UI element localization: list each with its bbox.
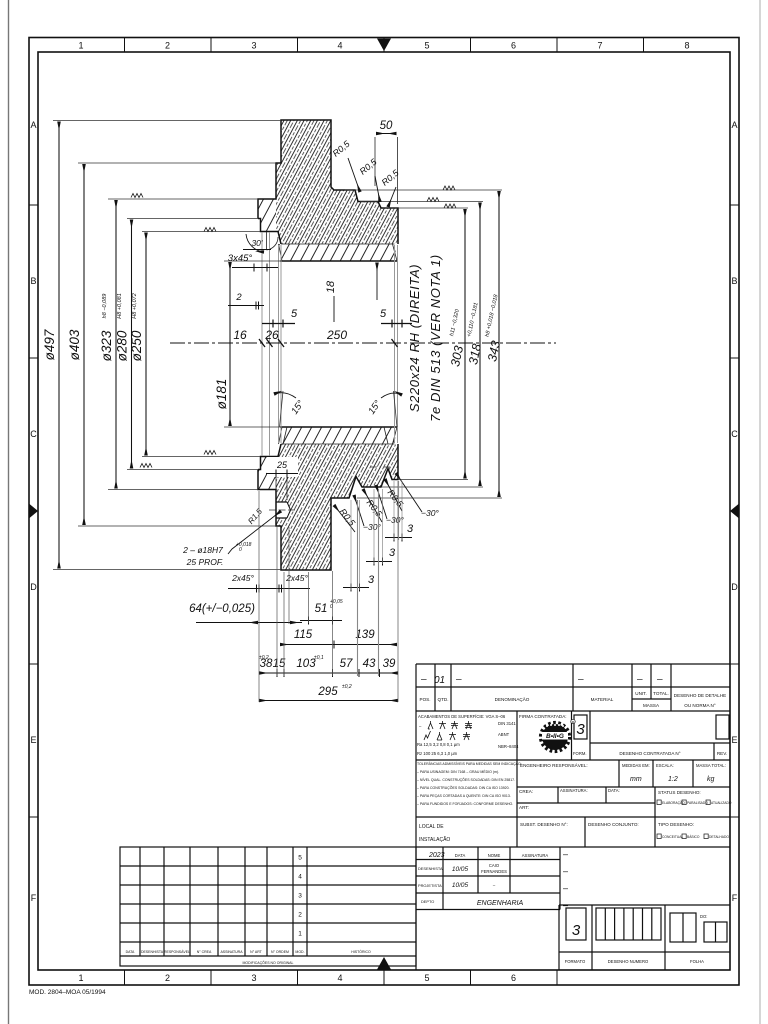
svg-text:ø497: ø497 [42, 329, 57, 360]
svg-text:CAIO: CAIO [489, 863, 500, 868]
svg-text:F: F [732, 893, 738, 903]
svg-text:MEDIDAS EM:: MEDIDAS EM: [622, 763, 650, 768]
svg-text:0: 0 [239, 547, 242, 553]
svg-text:NBR–8404: NBR–8404 [498, 744, 519, 749]
svg-text:N° ART: N° ART [250, 950, 263, 954]
svg-text:2x45°: 2x45° [231, 573, 254, 583]
svg-text:D: D [731, 582, 738, 592]
svg-text:E: E [30, 735, 36, 745]
svg-text:FORMATO: FORMATO [565, 959, 586, 964]
svg-text:– NÍVEL QUAL. CONSTRUÇÕES SOLD: – NÍVEL QUAL. CONSTRUÇÕES SOLDADAS: DIN … [417, 777, 515, 782]
svg-text:CONCEITUAL: CONCEITUAL [662, 835, 683, 839]
svg-text:– PARA PEÇAS CORTADAS A QUENTE: – PARA PEÇAS CORTADAS A QUENTE: DIN CA I… [417, 794, 511, 798]
svg-text:ATUALIZADO: ATUALIZADO [711, 801, 732, 805]
svg-text:7: 7 [597, 41, 602, 51]
svg-text:–: – [656, 674, 663, 685]
svg-text:TIPO DESENHO:: TIPO DESENHO: [658, 822, 694, 827]
svg-text:STATUS DESENHO:: STATUS DESENHO: [658, 790, 701, 795]
svg-text:DESENHO NUMERO: DESENHO NUMERO [608, 959, 649, 964]
svg-text:– PARA CONSTRUÇÕES SOLDADAS: D: – PARA CONSTRUÇÕES SOLDADAS: DIN CA ISO … [417, 785, 510, 790]
svg-text:ASSINATURA:: ASSINATURA: [560, 788, 588, 793]
svg-text:2x45°: 2x45° [285, 573, 308, 583]
svg-text:64(+/−0,025): 64(+/−0,025) [189, 603, 255, 615]
svg-text:51: 51 [315, 603, 328, 615]
svg-text:POS.: POS. [420, 697, 431, 702]
svg-text:S220x24 RH (DIREITA): S220x24 RH (DIREITA) [407, 264, 422, 412]
svg-text:–: – [493, 883, 496, 888]
svg-text:–: – [563, 900, 568, 910]
svg-text:10/05: 10/05 [452, 882, 469, 889]
svg-text:10/05: 10/05 [452, 866, 469, 873]
svg-text:25 PROF.: 25 PROF. [186, 557, 224, 567]
svg-text:115: 115 [294, 629, 313, 641]
svg-text:F: F [31, 893, 37, 903]
svg-text:ART:: ART: [519, 805, 529, 810]
svg-text:Rz 100 25 6,3: Rz 100 25 6,3 1,0 µm [417, 751, 458, 756]
svg-text:6: 6 [511, 41, 516, 51]
svg-text:INSTALAÇÃO: INSTALAÇÃO [419, 836, 450, 843]
svg-text:E: E [731, 735, 737, 745]
svg-text:ENGENHEIRO RESPONSÁVEL:: ENGENHEIRO RESPONSÁVEL: [520, 762, 588, 768]
svg-text:FIRMA CONTRATADA:: FIRMA CONTRATADA: [519, 714, 567, 719]
svg-text:DESENHISTA: DESENHISTA [141, 950, 164, 954]
svg-text:139: 139 [355, 629, 375, 641]
svg-text:–: – [419, 724, 422, 729]
svg-text:6: 6 [511, 973, 516, 983]
svg-text:D: D [30, 582, 37, 592]
svg-text:– PARA USINAGEM: DIN 7168 – GR: – PARA USINAGEM: DIN 7168 – GRAU MÉDIO (… [417, 769, 499, 774]
svg-text:295: 295 [317, 686, 338, 698]
svg-text:ø250: ø250 [129, 330, 144, 361]
svg-text:39: 39 [383, 658, 396, 670]
svg-text:H8 +0,072: H8 +0,072 [132, 293, 138, 319]
svg-text:−30°: −30° [421, 508, 439, 518]
svg-text:1: 1 [298, 931, 302, 938]
svg-text:2: 2 [165, 41, 170, 51]
svg-text:ø280: ø280 [115, 330, 130, 361]
svg-text:ø403: ø403 [67, 329, 82, 360]
svg-text:–: – [577, 674, 584, 685]
svg-text:ASSINATURA: ASSINATURA [522, 853, 549, 858]
svg-text:50: 50 [380, 120, 393, 132]
svg-text:15°: 15° [289, 398, 306, 416]
svg-text:MASSA: MASSA [643, 703, 660, 708]
svg-text:– PARA FUNDIDOS E FORJADOS: CO: – PARA FUNDIDOS E FORJADOS: CONFORME DES… [417, 802, 513, 806]
svg-text:–: – [455, 674, 462, 685]
svg-text:318: 318 [466, 342, 484, 365]
svg-text:4: 4 [337, 973, 342, 983]
svg-text:57: 57 [340, 658, 353, 670]
svg-text:R0,5: R0,5 [358, 156, 380, 177]
svg-text:CREA:: CREA: [519, 789, 533, 794]
svg-text:–: – [563, 866, 568, 876]
svg-text:B•II•G: B•II•G [546, 733, 564, 740]
svg-text:DESENHO CONTRATADA N°: DESENHO CONTRATADA N° [619, 751, 680, 756]
svg-text:NOME: NOME [488, 853, 501, 858]
svg-text:TOTAL.: TOTAL. [653, 691, 669, 696]
svg-text:ø323: ø323 [99, 330, 114, 361]
svg-text:N° CREA: N° CREA [197, 950, 212, 954]
svg-text:FERNANDES: FERNANDES [481, 869, 507, 874]
svg-text:250: 250 [326, 328, 347, 342]
svg-text:7e DIN 513 (VER NOTA 1): 7e DIN 513 (VER NOTA 1) [428, 254, 443, 422]
svg-text:R0,5: R0,5 [338, 507, 358, 529]
svg-text:ENGENHARIA: ENGENHARIA [477, 900, 524, 907]
svg-text:8: 8 [684, 41, 689, 51]
svg-text:LOCAL DE: LOCAL DE [419, 824, 444, 830]
svg-text:5: 5 [424, 41, 429, 51]
svg-text:DATA: DATA [126, 950, 135, 954]
svg-text:±0,2: ±0,2 [259, 655, 269, 661]
svg-text:QTD.: QTD. [438, 697, 449, 702]
svg-text:h8 −0,089: h8 −0,089 [102, 294, 108, 319]
svg-text:1: 1 [78, 973, 83, 983]
svg-text:DATA: DATA [455, 853, 466, 858]
svg-text:2023: 2023 [428, 852, 445, 859]
svg-text:DESENHO DE DETALHE: DESENHO DE DETALHE [674, 693, 727, 698]
svg-text:h11 −0,320: h11 −0,320 [449, 308, 461, 337]
svg-text:MATERIAL: MATERIAL [591, 697, 614, 702]
svg-text:R0,5: R0,5 [380, 167, 402, 188]
svg-text:ASSINATURA: ASSINATURA [220, 950, 243, 954]
svg-text:h8 +0,018 −0,018: h8 +0,018 −0,018 [485, 293, 500, 337]
svg-text:C: C [731, 429, 738, 439]
svg-text:3: 3 [368, 574, 375, 586]
svg-text:5: 5 [298, 855, 302, 862]
svg-text:343: 343 [485, 339, 503, 362]
svg-text:DESENHO CONJUNTO:: DESENHO CONJUNTO: [588, 822, 639, 827]
svg-text:16: 16 [233, 328, 247, 342]
svg-text:MODIFICAÇÕES NO ORIGINAL: MODIFICAÇÕES NO ORIGINAL [243, 960, 294, 965]
svg-text:R0,5: R0,5 [331, 138, 353, 159]
svg-text:303: 303 [448, 344, 466, 367]
svg-text:2 – ø18H7: 2 – ø18H7 [182, 545, 223, 555]
svg-text:B: B [731, 276, 737, 286]
svg-text:ACABAMENTOS DE SUPERFÍCIE:: ACABAMENTOS DE SUPERFÍCIE: VGA S–06 [418, 714, 506, 719]
svg-text:+0,110 −0,181: +0,110 −0,181 [466, 302, 479, 338]
svg-text:PARALISADO: PARALISADO [687, 801, 708, 805]
svg-text:5: 5 [380, 308, 387, 320]
svg-text:DATA:: DATA: [608, 788, 620, 793]
svg-text:3: 3 [389, 547, 396, 559]
svg-text:DO:: DO: [700, 914, 707, 919]
svg-text:43: 43 [363, 658, 376, 670]
svg-text:B: B [30, 276, 36, 286]
svg-text:DEPTO: DEPTO [421, 899, 434, 904]
svg-text:MOD.: MOD. [295, 950, 304, 954]
svg-text:4: 4 [298, 874, 302, 881]
svg-text:MOD. 2804–MOA 05/1994: MOD. 2804–MOA 05/1994 [29, 989, 106, 996]
svg-text:DESENHISTA: DESENHISTA [418, 866, 443, 871]
svg-text:BÁSICO: BÁSICO [687, 835, 700, 839]
svg-text:DETALHADO: DETALHADO [709, 835, 729, 839]
svg-text:3: 3 [298, 893, 302, 900]
svg-text:A: A [30, 120, 36, 130]
svg-text:N° ORDEM: N° ORDEM [271, 950, 289, 954]
svg-text:18: 18 [325, 280, 337, 293]
svg-text:01: 01 [434, 675, 445, 686]
svg-text:FORM.: FORM. [573, 751, 587, 756]
svg-text:A: A [731, 120, 737, 130]
svg-text:15°: 15° [366, 398, 383, 416]
svg-text:DIN 3141: DIN 3141 [498, 721, 516, 726]
svg-text:–: – [563, 849, 568, 859]
svg-text:PROJETISTA: PROJETISTA [418, 883, 442, 888]
svg-text:2: 2 [235, 292, 242, 303]
svg-text:30': 30' [251, 238, 262, 248]
svg-text:ESCALA:: ESCALA: [656, 763, 674, 768]
svg-text:RESPONSÁVEL: RESPONSÁVEL [164, 950, 190, 954]
svg-text:4: 4 [337, 41, 342, 51]
svg-text:3: 3 [251, 41, 256, 51]
svg-text:kg: kg [707, 776, 715, 783]
svg-text:3: 3 [407, 523, 414, 535]
svg-text:C: C [30, 429, 37, 439]
svg-text:3: 3 [572, 922, 581, 939]
svg-text:R1,5: R1,5 [246, 507, 264, 526]
svg-text:Ra 12,5 3,2 0,8: Ra 12,5 3,2 0,8 0,1 µm [417, 742, 460, 747]
svg-text:UNIT.: UNIT. [635, 691, 646, 696]
svg-text:FOLHA: FOLHA [690, 959, 704, 964]
svg-text:DENOMINAÇÃO: DENOMINAÇÃO [495, 696, 530, 702]
svg-text:3: 3 [576, 721, 585, 738]
svg-text:H8 +0,081: H8 +0,081 [117, 293, 123, 319]
svg-text:25: 25 [276, 460, 288, 470]
svg-text:mm: mm [630, 776, 642, 783]
svg-text:REV.: REV. [717, 751, 727, 756]
svg-text:5: 5 [424, 973, 429, 983]
svg-text:±0,2: ±0,2 [342, 684, 352, 690]
svg-text:TOLERÂNCIAS ADMISSÍVEIS PARA M: TOLERÂNCIAS ADMISSÍVEIS PARA MEDIDAS SEM… [417, 761, 522, 766]
svg-text:ABNT: ABNT [498, 732, 510, 737]
svg-text:3x45°: 3x45° [228, 253, 253, 264]
svg-text:–: – [636, 674, 643, 685]
svg-text:ø181: ø181 [214, 379, 229, 410]
svg-text:2: 2 [165, 973, 170, 983]
svg-text:−30°: −30° [386, 515, 404, 525]
svg-text:HISTÓRICO: HISTÓRICO [351, 949, 371, 954]
svg-text:–: – [420, 674, 427, 685]
svg-text:1:2: 1:2 [668, 776, 678, 783]
svg-text:±0,1: ±0,1 [314, 655, 324, 661]
svg-text:SUBST. DESENHO N°:: SUBST. DESENHO N°: [520, 822, 568, 827]
svg-text:MASSA TOTAL:: MASSA TOTAL: [696, 763, 726, 768]
svg-text:5: 5 [291, 308, 298, 320]
svg-text:2: 2 [298, 912, 302, 919]
svg-text:3: 3 [251, 973, 256, 983]
svg-text:–: – [563, 883, 568, 893]
svg-text:OU NORMA N°: OU NORMA N° [684, 703, 716, 708]
svg-text:1: 1 [78, 41, 83, 51]
